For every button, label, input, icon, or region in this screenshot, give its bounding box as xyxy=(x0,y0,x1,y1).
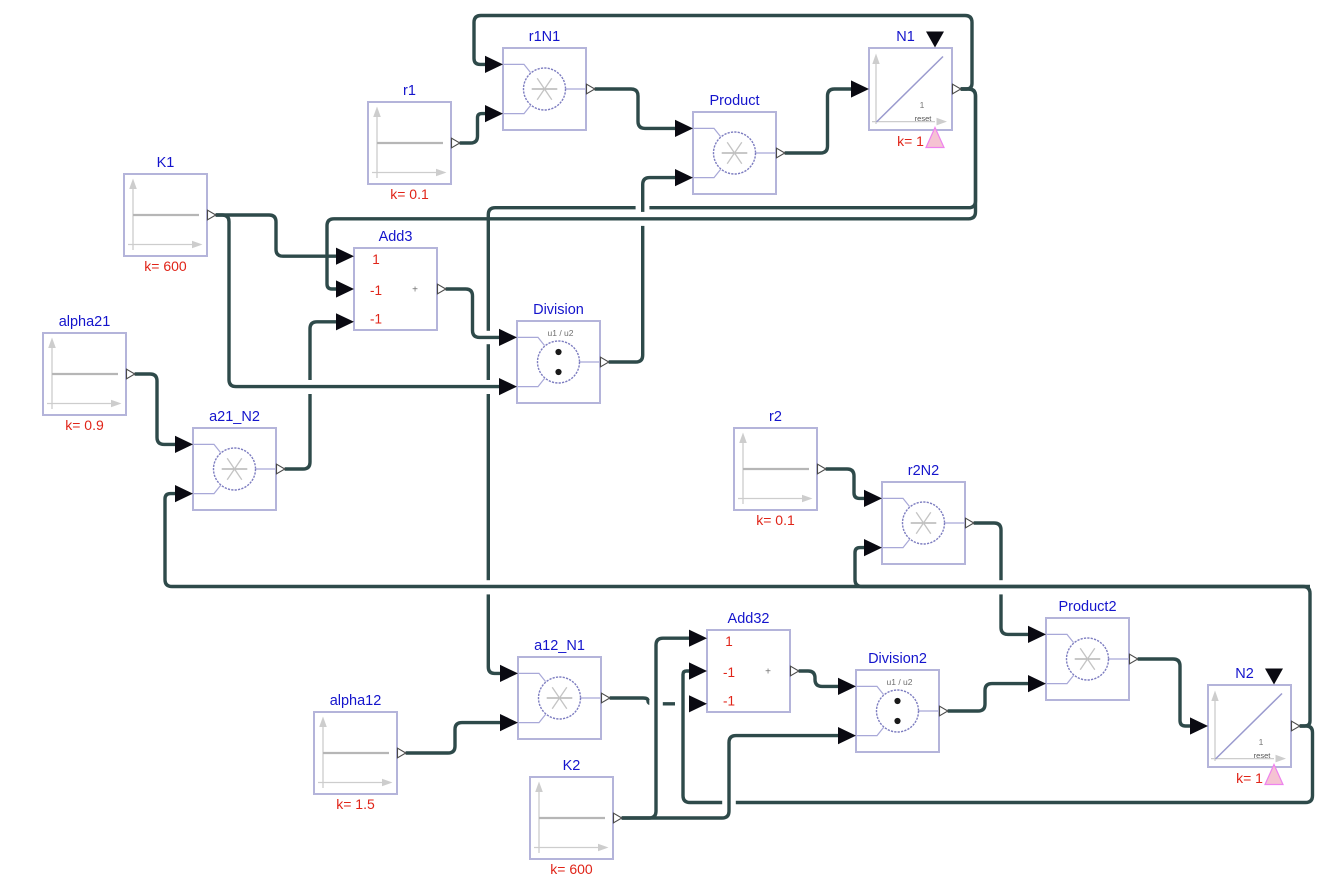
input ports Add32.u1 Add32.u2 Add32.u3 xyxy=(689,630,707,647)
multiplication block r1N1 xyxy=(503,48,586,130)
top port triangle N2 xyxy=(1265,669,1283,685)
svg-text:reset: reset xyxy=(915,114,933,123)
svg-text:1: 1 xyxy=(372,252,380,267)
reset port triangle N1 xyxy=(926,128,944,148)
svg-text:Product2: Product2 xyxy=(1058,599,1116,615)
multiplication block Product xyxy=(693,112,776,194)
svg-text:alpha12: alpha12 xyxy=(330,693,382,709)
wire N1.y -> r1N1.u1 xyxy=(474,16,972,90)
output port r1N1.y xyxy=(587,84,595,94)
output port alpha12.y xyxy=(398,748,406,758)
wire N1.y -> Add3.u2 xyxy=(327,89,976,289)
svg-text:K1: K1 xyxy=(157,155,175,171)
reset port triangle N2 xyxy=(1265,765,1283,785)
svg-text:Add32: Add32 xyxy=(728,611,770,627)
wire N1.y -> a12_N1.u1 xyxy=(488,89,975,673)
wire r1N1.y -> Product.u1 xyxy=(595,89,676,128)
wire gap patch on N2->Add32 line xyxy=(722,796,736,810)
svg-text:alpha21: alpha21 xyxy=(59,314,111,330)
wire N2.y -> Add32.u2 xyxy=(683,671,1313,803)
integrator block N1 xyxy=(869,48,952,130)
integrator block N2 xyxy=(1208,685,1291,767)
input port N1.u xyxy=(851,80,869,97)
svg-text:Add3: Add3 xyxy=(379,229,413,245)
division block Division xyxy=(517,321,600,403)
svg-text:+: + xyxy=(765,667,771,678)
svg-text:k= 1: k= 1 xyxy=(1236,770,1263,786)
output port N1.y xyxy=(953,84,961,94)
svg-text:Product: Product xyxy=(710,93,760,109)
svg-text:1: 1 xyxy=(1259,737,1264,747)
svg-text:u1 / u2: u1 / u2 xyxy=(887,677,913,687)
svg-text:a21_N2: a21_N2 xyxy=(209,409,260,425)
wire gap patches on N1->a12_N1 line xyxy=(636,204,650,211)
input ports Product2.u1 Product2.u2 xyxy=(1028,626,1046,643)
adder block Add32 xyxy=(707,630,790,712)
input ports a21_N2.u1 a21_N2.u2 xyxy=(175,436,193,453)
wire a12_N1.y -> Add32.u3 xyxy=(610,698,690,704)
multiplication block Product2 xyxy=(1046,618,1129,700)
svg-text:k= 1.5: k= 1.5 xyxy=(336,796,375,812)
svg-text:1: 1 xyxy=(920,100,925,110)
output port r2N2.y xyxy=(966,518,974,528)
svg-text:k= 0.1: k= 0.1 xyxy=(390,186,429,202)
constant block alpha12 xyxy=(314,712,397,794)
wire Product2.y -> N2.u xyxy=(1138,659,1191,726)
output port Add32.y xyxy=(791,666,799,676)
wire N2.y -> r2N2.u2 xyxy=(855,548,1310,587)
svg-text:reset: reset xyxy=(1254,751,1272,760)
wire gap patch on a21_N2->Add3 line xyxy=(304,380,317,394)
wire K2.y -> Division2.u2 xyxy=(622,736,839,818)
wire K1.y -> Division.u2 xyxy=(216,215,500,387)
wire Add3.y -> Division.u1 xyxy=(446,289,500,337)
wire Product.y -> N1.u xyxy=(785,89,852,153)
wire alpha21.y -> a21_N2.u1 xyxy=(135,374,176,444)
svg-text:N1: N1 xyxy=(896,29,915,45)
svg-text:1: 1 xyxy=(725,634,733,649)
top port triangle N1 xyxy=(926,32,944,48)
wire K2.y -> Add32.u1 xyxy=(622,638,690,818)
constant block K2 xyxy=(530,777,613,859)
constant block r2 xyxy=(734,428,817,510)
wire Add32.y -> Division2.u1 xyxy=(799,671,839,686)
svg-text:r1: r1 xyxy=(403,83,416,99)
svg-text:k= 0.9: k= 0.9 xyxy=(65,417,104,433)
svg-text:r1N1: r1N1 xyxy=(529,29,560,45)
output port a12_N1.y xyxy=(602,693,610,703)
multiplication block a21_N2 xyxy=(193,428,276,510)
svg-text:u1 / u2: u1 / u2 xyxy=(548,328,574,338)
svg-text:a12_N1: a12_N1 xyxy=(534,638,585,654)
constant block r1 xyxy=(368,102,451,184)
output port Product2.y xyxy=(1130,654,1138,664)
output port a21_N2.y xyxy=(277,464,285,474)
input ports Division2.u1 Division2.u2 xyxy=(838,678,856,695)
svg-text:-1: -1 xyxy=(723,665,735,680)
wire gap patch on r2N2->Product2 line xyxy=(995,580,1008,594)
svg-text:Division: Division xyxy=(533,302,584,318)
input ports r1N1.u1 r1N1.u2 xyxy=(485,56,503,73)
svg-text:k= 600: k= 600 xyxy=(550,861,593,877)
svg-text:-1: -1 xyxy=(723,694,735,709)
svg-text:k= 1: k= 1 xyxy=(897,133,924,149)
wire alpha12.y -> a12_N1.u2 xyxy=(406,723,501,753)
svg-text:K2: K2 xyxy=(563,758,581,774)
input ports Product.u1 Product.u2 xyxy=(675,120,693,137)
svg-text:k= 600: k= 600 xyxy=(144,258,187,274)
svg-text:-1: -1 xyxy=(370,283,382,298)
constant block alpha21 xyxy=(43,333,126,415)
wire Division2.y -> Product2.u2 xyxy=(948,684,1029,711)
svg-text:k= 0.1: k= 0.1 xyxy=(756,512,795,528)
input ports Add3.u1 Add3.u2 Add3.u3 xyxy=(336,248,354,265)
wire r2.y -> r2N2.u1 xyxy=(826,469,865,498)
wire a21_N2.y -> Add3.u3 xyxy=(285,322,337,469)
adder block Add3 xyxy=(354,248,437,330)
wire r2N2.y -> Product2.u1 xyxy=(974,523,1029,634)
svg-text:+: + xyxy=(412,285,418,296)
output port Division2.y xyxy=(940,706,948,716)
output port r1.y xyxy=(452,138,460,148)
output port alpha21.y xyxy=(127,369,135,379)
output port Product.y xyxy=(777,148,785,158)
output port Add3.y xyxy=(438,284,446,294)
constant block K1 xyxy=(124,174,207,256)
wire Division.y -> Product.u2 xyxy=(609,178,676,362)
wire N2.y -> a21_N2.u2 xyxy=(165,494,1310,726)
output port N2.y xyxy=(1292,721,1300,731)
output port K2.y xyxy=(614,813,622,823)
wire gap patches on a12_N1->Add32 line xyxy=(649,700,663,708)
output port Division.y xyxy=(601,357,609,367)
multiplication block a12_N1 xyxy=(518,657,601,739)
input ports r2N2.u1 r2N2.u2 xyxy=(864,490,882,507)
input port N2.u xyxy=(1190,717,1208,734)
svg-text:N2: N2 xyxy=(1235,666,1254,682)
svg-text:Division2: Division2 xyxy=(868,651,927,667)
output port K1.y xyxy=(208,210,216,220)
wire K1.y -> Add3.u1 xyxy=(216,215,337,256)
input ports Division.u1 Division.u2 xyxy=(499,329,517,346)
wire r1.y -> r1N1.u2 xyxy=(460,114,486,143)
svg-text:r2N2: r2N2 xyxy=(908,463,939,479)
svg-text:-1: -1 xyxy=(370,312,382,327)
multiplication block r2N2 xyxy=(882,482,965,564)
svg-text:r2: r2 xyxy=(769,409,782,425)
input ports a12_N1.u1 a12_N1.u2 xyxy=(500,665,518,682)
output port r2.y xyxy=(818,464,826,474)
division block Division2 xyxy=(856,670,939,752)
wire gap patch on Division->Product line xyxy=(636,212,649,226)
